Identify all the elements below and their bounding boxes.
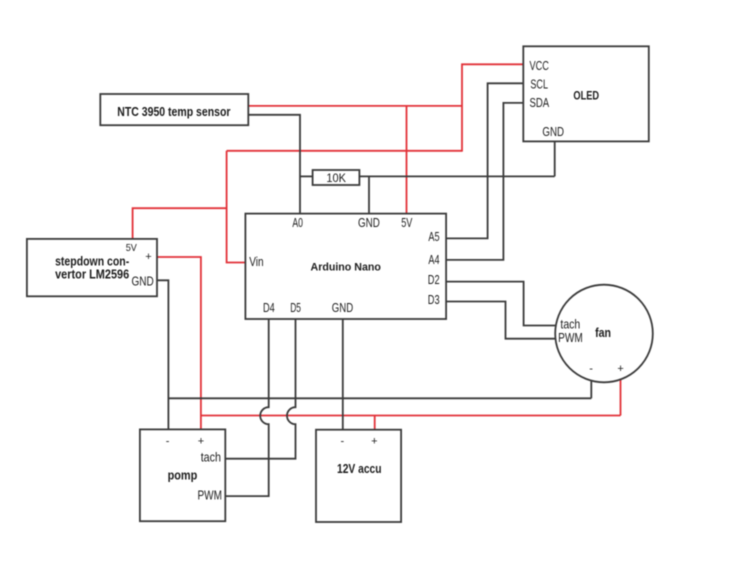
svg-text:A5: A5 xyxy=(428,230,439,244)
svg-text:-: - xyxy=(166,435,170,447)
svg-text:NTC 3950 temp sensor: NTC 3950 temp sensor xyxy=(117,104,230,119)
svg-text:D2: D2 xyxy=(428,273,440,287)
svg-text:Vin: Vin xyxy=(249,255,263,269)
svg-text:A4: A4 xyxy=(428,253,439,267)
svg-text:+: + xyxy=(198,435,204,447)
svg-text:-: - xyxy=(589,363,593,375)
svg-text:A0: A0 xyxy=(292,216,303,230)
svg-text:-: - xyxy=(340,435,344,447)
svg-text:+: + xyxy=(371,435,377,447)
svg-text:+: + xyxy=(145,251,151,263)
svg-text:OLED: OLED xyxy=(573,89,599,103)
svg-text:GND: GND xyxy=(542,125,564,139)
svg-text:GND: GND xyxy=(358,216,380,230)
svg-text:10K: 10K xyxy=(326,173,346,185)
svg-text:+: + xyxy=(617,363,623,375)
svg-text:5V: 5V xyxy=(126,242,137,254)
svg-text:12V accu: 12V accu xyxy=(337,461,382,476)
svg-text:D3: D3 xyxy=(428,293,440,307)
svg-text:GND: GND xyxy=(332,301,353,315)
svg-text:SCL: SCL xyxy=(530,78,548,92)
svg-text:fan: fan xyxy=(595,326,611,340)
svg-text:5V: 5V xyxy=(401,216,413,230)
svg-text:GND: GND xyxy=(132,274,154,288)
svg-text:tach: tach xyxy=(560,318,580,332)
svg-text:PWM: PWM xyxy=(558,331,583,345)
svg-text:VCC: VCC xyxy=(530,59,549,73)
svg-text:tach: tach xyxy=(201,450,221,464)
svg-text:vertor LM2596: vertor LM2596 xyxy=(55,267,129,282)
svg-text:Arduino Nano: Arduino Nano xyxy=(311,262,382,274)
svg-text:SDA: SDA xyxy=(530,96,550,110)
svg-text:pomp: pomp xyxy=(168,468,198,482)
svg-text:D5: D5 xyxy=(290,301,301,315)
svg-text:D4: D4 xyxy=(263,301,275,315)
svg-text:PWM: PWM xyxy=(198,488,223,502)
